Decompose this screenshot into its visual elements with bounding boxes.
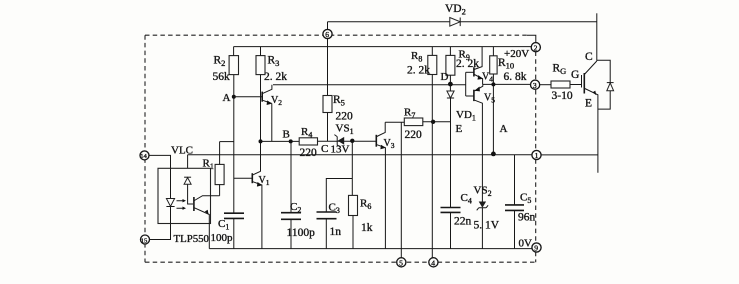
pin 14	[140, 151, 149, 160]
svg-text:1100p: 1100p	[287, 227, 316, 239]
svg-text:5. 1V: 5. 1V	[474, 220, 500, 232]
wire stub R1 top to node A column	[220, 141, 234, 143]
svg-text:B: B	[283, 129, 290, 141]
transistor V4	[465, 72, 467, 96]
wire pin15 to optocoupler LED cathode	[150, 224, 171, 240]
svg-text:14: 14	[140, 153, 147, 160]
svg-text:G: G	[571, 69, 579, 81]
resistor RG	[551, 81, 570, 88]
node A	[232, 95, 236, 99]
svg-text:220: 220	[336, 111, 354, 123]
transistor IGBT	[583, 73, 585, 94]
svg-text:D: D	[441, 71, 449, 83]
wire pin5 column	[400, 122, 402, 257]
capacitor C5	[514, 155, 516, 249]
pin 2	[531, 43, 540, 52]
svg-text:3-10: 3-10	[552, 90, 573, 102]
diode VD2	[450, 18, 460, 27]
svg-text:13V: 13V	[331, 144, 350, 156]
wire pin14 to optocoupler LED anode	[149, 155, 171, 168]
svg-text:100p: 100p	[211, 232, 234, 244]
node C junction dot	[350, 139, 354, 143]
wire pin3 output	[483, 83, 531, 85]
resistor R6	[349, 195, 358, 215]
IC dashed boundary left edge	[144, 35, 146, 262]
svg-text:3: 3	[533, 81, 537, 90]
IC dashed boundary right edge	[535, 52, 537, 263]
node pin3 junction	[491, 82, 495, 86]
LED inside optocoupler	[170, 168, 172, 223]
svg-text:1n: 1n	[330, 226, 342, 238]
transistor V5	[466, 95, 474, 97]
capacitor C4	[441, 208, 461, 213]
svg-text:5: 5	[399, 259, 403, 268]
svg-text:1k: 1k	[361, 222, 373, 234]
pin 9	[532, 243, 541, 252]
resistor R4	[299, 138, 317, 145]
diode VD1	[447, 91, 454, 98]
svg-text:22n: 22n	[454, 216, 472, 228]
resistor R2	[229, 56, 238, 75]
wire 0V rail	[209, 248, 532, 250]
svg-text:2. 2k: 2. 2k	[264, 71, 287, 83]
wire node C column down	[351, 141, 353, 196]
node B wire	[261, 140, 376, 142]
IC dashed boundary top edge	[145, 34, 527, 36]
svg-text:1: 1	[535, 151, 539, 160]
capacitor C2	[290, 141, 292, 248]
transistor V1	[251, 173, 253, 183]
capacitor C1	[233, 75, 235, 249]
diode freewheel across IGBT	[607, 83, 614, 91]
wire VLC corner into optocoupler	[187, 155, 189, 177]
resistor R7	[404, 118, 423, 126]
svg-text:2. 2k: 2. 2k	[456, 58, 479, 70]
svg-text:C: C	[585, 51, 593, 63]
node D	[448, 82, 453, 87]
resistor R1	[215, 164, 224, 184]
resistor R3	[256, 56, 265, 75]
IC dashed boundary bottom edge	[145, 261, 536, 263]
wire E rail (emitter reference)	[188, 154, 598, 156]
svg-text:6. 8k: 6. 8k	[504, 71, 527, 83]
photodiode inside optocoupler	[188, 177, 193, 204]
svg-text:+20V: +20V	[504, 48, 529, 60]
svg-text:E: E	[456, 123, 463, 135]
wire V2 collector rail to bases of V4 V5	[273, 84, 466, 86]
svg-text:TLP550: TLP550	[174, 233, 209, 245]
svg-text:2. 2k: 2. 2k	[407, 65, 430, 77]
svg-text:220: 220	[300, 147, 318, 159]
svg-text:VLC: VLC	[171, 145, 193, 157]
resistor R10	[490, 56, 497, 74]
pin 15	[141, 235, 150, 244]
resistor R9	[446, 55, 455, 75]
node E rail junction	[491, 152, 496, 157]
svg-text:6: 6	[325, 30, 329, 39]
pin 5	[397, 258, 406, 267]
+20V rail	[234, 46, 532, 48]
zener VS1	[338, 137, 345, 145]
phototransistor of TLP550	[193, 197, 195, 211]
svg-text:56k: 56k	[213, 71, 231, 83]
wire node A to V2 base	[234, 96, 262, 98]
resistor R5	[323, 96, 332, 113]
pin 6	[323, 29, 332, 38]
wire branch to C3	[326, 179, 352, 213]
pin 4	[429, 258, 438, 267]
svg-text:4: 4	[431, 259, 435, 268]
transistor V2	[261, 92, 263, 102]
svg-text:15: 15	[141, 237, 148, 244]
pin 1	[532, 150, 541, 159]
svg-text:E: E	[585, 98, 592, 110]
svg-text:0V: 0V	[519, 238, 533, 250]
resistor R8	[428, 55, 437, 74]
svg-text:96n: 96n	[518, 212, 536, 224]
wire freewheel diode branch	[597, 60, 610, 109]
wire IGBT collector column	[596, 13, 598, 60]
zener VS2	[479, 202, 486, 208]
svg-text:C: C	[321, 143, 328, 155]
svg-text:220: 220	[405, 129, 423, 141]
optocoupler TLP550 box	[158, 168, 211, 223]
svg-text:2: 2	[534, 43, 538, 52]
node R7 junction	[431, 120, 435, 124]
svg-text:A: A	[500, 123, 508, 135]
wire corner from top edge into pin 2	[527, 35, 536, 43]
svg-text:A: A	[223, 92, 231, 104]
wire pin6 riser and VD2 top wire	[328, 22, 597, 96]
pin 3	[531, 80, 540, 89]
light arrows	[177, 201, 184, 209]
transistor V3	[375, 135, 377, 147]
svg-text:9: 9	[534, 244, 538, 253]
capacitor C3	[317, 212, 337, 219]
